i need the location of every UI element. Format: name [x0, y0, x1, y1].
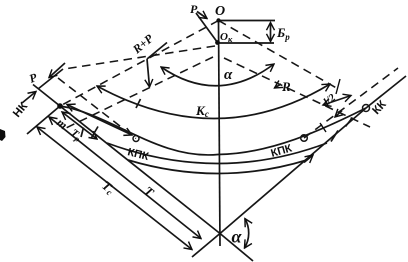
tick on left tangent	[91, 127, 98, 139]
dimension T line	[49, 117, 201, 239]
dashed radius O-KK	[219, 21, 341, 91]
node KPK right circle	[301, 135, 308, 142]
ink blob at left edge	[0, 129, 6, 141]
dashed line Ok to P offset point (left)	[64, 46, 215, 69]
l/2 left arrow pointing down-left	[335, 111, 342, 118]
arrow from R+P label pointing down	[147, 59, 150, 87]
original circular curve	[128, 160, 307, 174]
dimension P (left) arrow from upper right	[49, 63, 65, 78]
dimension Tp line	[67, 105, 132, 136]
wire: left tangent from beyond NK to vertex	[33, 85, 220, 234]
angle alpha arc (bottom at vertex)	[245, 219, 249, 248]
arrow from label P (top)	[197, 12, 207, 19]
wire: right tangent from KK to vertex	[220, 108, 366, 234]
dashed shifted tangent through KPK left	[58, 78, 136, 139]
main summary curve NK-KPK-KPK-KK	[60, 106, 366, 155]
svg-text:О: О	[215, 4, 225, 19]
dimension curve Kc with arrows	[97, 84, 330, 119]
dimension Bp double arrow	[270, 23, 272, 42]
dashed tick near KPK right	[320, 123, 326, 132]
node KPK left circle	[133, 136, 139, 142]
dashed radius Ok-NK lower	[66, 57, 213, 128]
wire: perpendicular extension line at NK	[27, 106, 60, 134]
wire: horizontal line from O to the right	[219, 20, 276, 22]
wire: bisector vertical line from O through Ok to vertex	[219, 21, 221, 247]
node Ok	[215, 40, 220, 45]
tick after Tp label	[81, 128, 84, 138]
wire: short diagonal through Ok up-left	[196, 13, 218, 43]
dashed radius Ok-KK	[224, 58, 370, 127]
shifted circular curve R	[107, 143, 327, 164]
dashed tick near l/2	[336, 79, 340, 94]
arrow tick before R label	[275, 84, 282, 88]
tick on right tangent near KK	[346, 118, 353, 127]
dashed radius O-NK	[62, 21, 219, 106]
dimension l/2 double arrow	[323, 96, 351, 106]
dimension m line	[62, 112, 97, 139]
dimension P (left) tick segment	[38, 69, 63, 89]
node NK point	[57, 103, 63, 109]
wire: horizontal line from Ok to the right	[218, 42, 275, 44]
svg-text:Р: Р	[190, 2, 198, 16]
dashed shifted tangent through KPK right	[304, 68, 398, 138]
tick on right tangent	[331, 131, 338, 142]
svg-text:α: α	[224, 67, 233, 83]
tick on Kc curve	[136, 99, 141, 108]
svg-text:α: α	[232, 227, 243, 247]
dimension Tc line	[37, 127, 192, 250]
wire: right tangent extension beyond KK	[366, 76, 406, 108]
svg-text:R: R	[281, 79, 291, 94]
node O	[216, 18, 220, 22]
arrowhead on right tangent	[304, 155, 313, 163]
dimension P (left) arrow along tangent	[22, 92, 36, 104]
wire: right tangent extension beyond vertex	[192, 234, 220, 258]
node KK circle	[363, 105, 370, 112]
leader line under R+P label	[147, 43, 167, 60]
wire: left tangent extension beyond vertex	[220, 234, 253, 262]
angle alpha arc (top)	[161, 64, 274, 86]
